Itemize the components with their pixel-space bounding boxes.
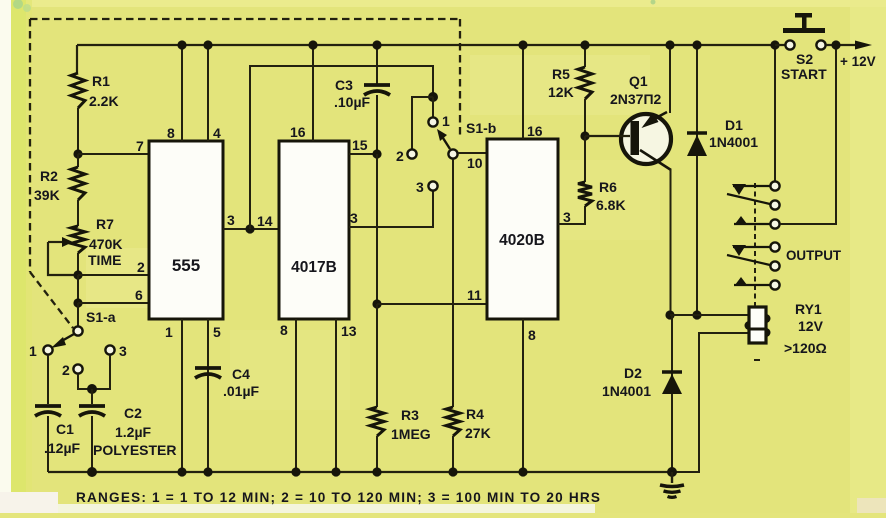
svg-text:POLYESTER: POLYESTER: [93, 442, 177, 458]
node Q1 base junction: [580, 131, 589, 140]
svg-text:R3: R3: [401, 407, 419, 423]
svg-text:1N4001: 1N4001: [602, 383, 651, 399]
svg-text:16: 16: [290, 124, 306, 140]
wire collector node to relay coil top: [670, 314, 750, 316]
wire feed to contact 1: [432, 97, 434, 117]
resistor R1: [71, 73, 119, 154]
node R3 ground junction: [372, 467, 381, 476]
node 555 pin 2 junction: [73, 270, 82, 279]
wire Q1 collector down: [670, 169, 672, 315]
node S1-a contact 2: [62, 362, 83, 378]
wire junction drop: [77, 275, 79, 303]
svg-text:R4: R4: [466, 406, 484, 422]
wire 555 pin 4 to bus: [208, 45, 221, 141]
svg-text:S1-a: S1-a: [86, 309, 116, 325]
svg-text:39K: 39K: [34, 187, 60, 203]
switch relay contact set 1 common: [770, 45, 779, 191]
capacitor C2 1.2uF POLYESTER: [79, 389, 177, 472]
svg-text:Q1: Q1: [629, 73, 648, 89]
svg-text:1MEG: 1MEG: [391, 426, 431, 442]
node +12V supply arrow: [840, 41, 876, 70]
node C3 bus junction: [372, 40, 381, 49]
node pin 3 junction: [245, 224, 254, 233]
switch relay contact set 1 moving leaf: [727, 194, 770, 204]
svg-text:5: 5: [213, 324, 221, 340]
node D1 lower junction: [692, 310, 701, 319]
node pin 8 ground junction: [518, 467, 527, 476]
diode D1 1N4001: [687, 45, 758, 315]
switch S1-b pole: [448, 120, 496, 159]
wire S1-b pole down to R4: [452, 159, 454, 407]
node pin 5 ground junction: [203, 467, 212, 476]
svg-text:.10µF: .10µF: [334, 94, 371, 110]
svg-text:7: 7: [136, 138, 144, 154]
wire bus drop to R1: [76, 45, 78, 73]
node pin 13 ground junction: [331, 467, 340, 476]
wire 555 pin 5 upper segment: [208, 319, 221, 404]
svg-text:2: 2: [396, 148, 404, 164]
wire S1 mechanical link dashed border top: [30, 18, 460, 20]
svg-text:12V: 12V: [798, 318, 824, 334]
wire to 555 pin 7: [78, 138, 149, 154]
wire 4020B pin 8 to ground: [523, 319, 536, 472]
node S1-b feed junction: [428, 92, 438, 102]
wire to 555 pin 6: [78, 287, 149, 303]
svg-text:D2: D2: [624, 365, 642, 381]
capacitor C3 .10uF: [334, 45, 390, 154]
svg-text:4: 4: [213, 125, 221, 141]
svg-text:6.8K: 6.8K: [596, 197, 626, 213]
wire NO contact to +12V: [780, 45, 836, 224]
svg-text:R2: R2: [40, 168, 58, 184]
node S1-b contact 1: [428, 113, 450, 129]
node reset line junction: [372, 149, 381, 158]
node 555 pin 7 junction: [73, 149, 82, 158]
wire bottom ground bus: [48, 471, 672, 473]
diode D2 1N4001: [602, 315, 682, 472]
wire feed to contact 2: [412, 97, 433, 149]
resistor R2: [34, 154, 85, 226]
node collector junction: [665, 310, 674, 319]
svg-text:10: 10: [467, 155, 483, 171]
node R5 bus junction: [580, 40, 589, 49]
ground: [660, 472, 684, 497]
node S1-b contact 2: [396, 148, 417, 164]
svg-text:RANGES: 1 = 1 TO 12 MIN; 2 = 1: RANGES: 1 = 1 TO 12 MIN; 2 = 10 TO 120 M…: [76, 490, 600, 505]
switch S2 START pushbutton: [775, 13, 836, 82]
svg-text:C3: C3: [335, 77, 353, 93]
wire relay coil bottom return: [672, 333, 750, 472]
switch relay contact set 2 NO contact: [734, 277, 780, 290]
svg-text:.01µF: .01µF: [223, 383, 260, 399]
node pin 4 bus junction: [203, 40, 212, 49]
svg-text:D1: D1: [725, 117, 743, 133]
wire 4017B pin 15 reset: [349, 137, 378, 154]
node pin 8 ground junction: [291, 467, 300, 476]
svg-text:+ 12V: + 12V: [840, 54, 876, 69]
node S1-a contact 3: [105, 343, 127, 359]
svg-text:C4: C4: [232, 366, 250, 382]
wire S1 link dashed drop to S1-b: [459, 19, 461, 135]
wire clock riser to S1-b feed: [250, 66, 433, 229]
svg-text:1: 1: [29, 343, 37, 359]
wire 4020B pin 3 output: [558, 206, 585, 225]
switch relay contact set 2 common: [732, 242, 780, 256]
resistor R3 1MEG: [370, 304, 431, 472]
node D1 bus junction: [692, 40, 701, 49]
wire bus after S2: [826, 44, 856, 46]
capacitor C1 .12uF: [35, 355, 81, 472]
svg-text:START: START: [781, 66, 827, 82]
node emitter bus junction: [665, 40, 674, 49]
node R4 ground junction: [448, 467, 457, 476]
wire S1-a contact 2 to C2: [78, 374, 92, 389]
op-amp U1 555 timer IC: [149, 141, 223, 319]
svg-text:OUTPUT: OUTPUT: [786, 248, 842, 263]
wire dash below coil: [754, 359, 760, 361]
resistor R4 27K: [446, 406, 491, 472]
op-amp U3 4020B counter IC: [487, 139, 558, 319]
wire relay armature dashed link: [754, 183, 756, 306]
svg-text:2N37П2: 2N37П2: [610, 91, 662, 107]
wire S1-b pole to 4020B pin 10: [458, 153, 487, 171]
svg-text:2: 2: [137, 259, 145, 275]
node pin 8 bus junction: [177, 40, 186, 49]
wire S1-a contact 3 to C2: [92, 355, 110, 389]
svg-text:R1: R1: [92, 73, 110, 89]
node +12V junction: [831, 40, 840, 49]
svg-text:R5: R5: [552, 66, 570, 82]
resistor R5 12K: [548, 45, 592, 136]
svg-text:1: 1: [165, 324, 173, 340]
node 555 pin 6 junction: [73, 298, 82, 307]
capacitor C4 .01uF: [195, 366, 260, 472]
svg-text:13: 13: [341, 323, 357, 339]
svg-text:3: 3: [416, 179, 424, 195]
resistor R6 6.8K: [578, 136, 626, 213]
wire 555 pin 1 to ground bus: [165, 319, 182, 472]
node S1-a contact 1: [29, 343, 53, 359]
svg-text:>120Ω: >120Ω: [784, 340, 827, 356]
wire Q1 emitter to bus: [669, 45, 671, 113]
switch relay contact set 1 NO contact: [734, 216, 780, 229]
svg-text:.12µF: .12µF: [44, 440, 81, 456]
svg-text:C2: C2: [124, 405, 142, 421]
svg-text:3: 3: [227, 212, 235, 228]
node S1-b contact 3: [416, 179, 438, 195]
node reset/pin11 junction: [372, 299, 381, 308]
svg-text:1.2µF: 1.2µF: [115, 424, 152, 440]
svg-text:8: 8: [528, 327, 536, 343]
node S2 bus junction: [770, 40, 779, 49]
wire 555 pin 3 to 4017B pin 14: [223, 212, 279, 229]
switch S1-a wiper arm: [51, 334, 74, 348]
svg-text:16: 16: [527, 123, 543, 139]
relay RY1 coil 12V >120ohm: [745, 301, 827, 356]
wire 4017B pin 16 to bus: [290, 45, 313, 141]
svg-text:12K: 12K: [548, 84, 574, 100]
svg-text:TIME: TIME: [88, 252, 121, 268]
switch S1-b wiper arm: [437, 129, 450, 149]
wire to 555 pin 2: [78, 259, 149, 275]
svg-text:555: 555: [172, 256, 200, 275]
wire 4020B pin 11: [377, 287, 487, 304]
svg-text:C1: C1: [56, 421, 74, 437]
wire 4020B pin 16 to bus: [523, 45, 543, 139]
svg-text:4017B: 4017B: [291, 259, 337, 276]
svg-text:6: 6: [135, 287, 143, 303]
svg-text:11: 11: [467, 287, 482, 303]
node pin 1 ground junction: [177, 467, 186, 476]
svg-text:4020B: 4020B: [499, 232, 545, 249]
svg-text:RY1: RY1: [795, 301, 822, 317]
svg-text:2.2K: 2.2K: [89, 93, 119, 109]
wire 4017B pin 13 to ground: [336, 319, 357, 472]
resistor R7 potentiometer 470K TIME: [48, 216, 122, 275]
svg-text:2: 2: [62, 362, 70, 378]
node pin 16 bus junction: [518, 40, 527, 49]
svg-text:S2: S2: [796, 51, 813, 67]
svg-text:15: 15: [352, 137, 368, 153]
switch relay contact set 2 moving leaf: [727, 255, 770, 265]
svg-text:1: 1: [442, 113, 450, 129]
svg-text:3: 3: [119, 343, 127, 359]
svg-text:27K: 27K: [465, 425, 491, 441]
svg-text:S1-b: S1-b: [466, 120, 496, 136]
node relay set 1 NC contact: [770, 200, 779, 209]
svg-text:3: 3: [563, 209, 571, 225]
op-amp U2 4017B counter IC: [279, 141, 349, 319]
svg-text:14: 14: [257, 213, 273, 229]
node pin 16 bus junction: [308, 40, 317, 49]
wire S1 link dashed diagonal to S1-a: [30, 272, 73, 328]
switch S1-a pole: [73, 303, 115, 336]
svg-text:3: 3: [350, 210, 358, 226]
wire 4017B pin 8 to ground: [280, 319, 296, 472]
svg-text:8: 8: [280, 322, 288, 338]
node ground junction: [667, 467, 677, 477]
wire reset line down: [376, 154, 378, 304]
transistor Q1 2N3702: [585, 73, 671, 170]
node C2 top junction: [87, 384, 97, 394]
wire S1 link dashed left side: [29, 19, 31, 272]
svg-text:R6: R6: [599, 179, 617, 195]
wire top +12V bus: [77, 44, 785, 46]
svg-text:470K: 470K: [89, 236, 122, 252]
node relay set 2 NC contact: [770, 261, 779, 270]
svg-text:1N4001: 1N4001: [709, 134, 758, 150]
wire 4017B pin 3 output to S1-b contact 3: [349, 191, 433, 227]
svg-text:R7: R7: [96, 216, 114, 232]
switch relay contact set 1 armature arrow: [732, 184, 770, 195]
node C2 ground junction: [87, 467, 97, 477]
svg-text:8: 8: [167, 125, 175, 141]
wire 555 pin 8 to bus: [167, 45, 182, 141]
